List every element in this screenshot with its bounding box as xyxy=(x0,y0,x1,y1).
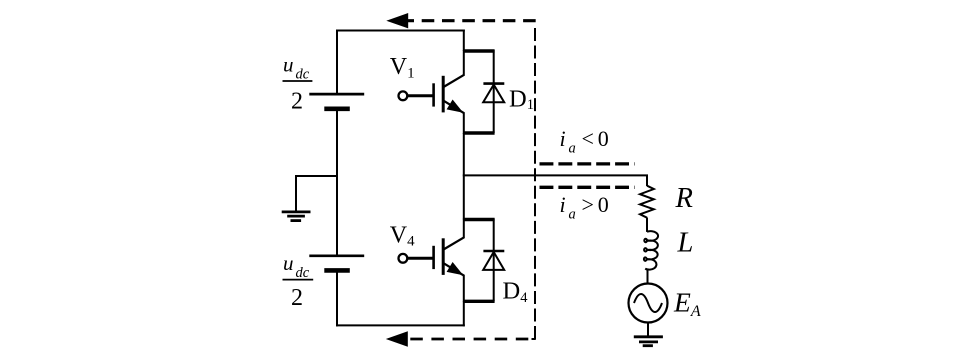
svg-text:0: 0 xyxy=(598,126,609,151)
inductor L xyxy=(644,231,658,269)
label u_dc/2 bottom xyxy=(283,251,314,311)
svg-text:0: 0 xyxy=(598,192,609,217)
dashed current loop top xyxy=(408,19,536,22)
arrow top (points left) xyxy=(386,13,408,28)
svg-text:i: i xyxy=(560,126,566,151)
wire ground branch horizontal xyxy=(296,175,338,177)
bold dashed ia>0 path xyxy=(540,186,635,189)
svg-text:<: < xyxy=(582,126,594,151)
wire R to L xyxy=(646,218,648,232)
diode D4 xyxy=(483,219,504,302)
svg-text:R: R xyxy=(675,183,693,214)
label u_dc/2 top xyxy=(283,53,313,115)
svg-text:EA: EA xyxy=(673,286,701,320)
wire left rail upper xyxy=(336,30,338,95)
wire L to EA xyxy=(647,271,649,285)
wire top bus xyxy=(336,30,465,32)
battery B2 u_dc/2 long plate xyxy=(309,254,364,257)
svg-text:V1: V1 xyxy=(390,54,415,81)
source EA circle xyxy=(629,284,668,323)
svg-text:D4: D4 xyxy=(503,277,529,306)
transistor V4 (IGBT) xyxy=(399,219,465,303)
svg-text:D1: D1 xyxy=(509,85,534,113)
dashed current loop right side xyxy=(534,28,536,339)
ground symbol left xyxy=(282,212,311,221)
wire right rail bottom xyxy=(463,301,465,326)
wire bottom bus xyxy=(336,324,465,326)
node thick bar bottom of V4/D4 xyxy=(463,300,495,303)
svg-text:L: L xyxy=(677,228,694,259)
wire left rail lower xyxy=(336,270,338,326)
svg-text:dc: dc xyxy=(296,265,310,281)
svg-text:2: 2 xyxy=(291,285,303,311)
dashed loop corner hook xyxy=(532,338,536,340)
wire EA to ground xyxy=(647,323,649,337)
wire left rail middle xyxy=(336,109,338,256)
label ia>0 xyxy=(560,192,609,223)
wire right rail middle (output node) xyxy=(463,133,465,220)
svg-text:u: u xyxy=(283,53,294,77)
wire output to load xyxy=(463,175,647,186)
wire ground branch vertical xyxy=(295,175,297,211)
svg-text:2: 2 xyxy=(291,89,303,115)
source EA sine xyxy=(634,294,662,312)
arrow bottom (points left) xyxy=(386,331,408,346)
wire right rail top xyxy=(463,30,465,52)
svg-text:i: i xyxy=(560,192,566,217)
svg-text:u: u xyxy=(283,251,294,275)
bold dashed ia<0 path xyxy=(540,162,635,165)
transistor V1 (IGBT) xyxy=(399,50,465,134)
node thick bar bottom of V1/D1 xyxy=(463,131,495,134)
svg-text:>: > xyxy=(582,192,594,217)
battery B1 u_dc/2 long plate xyxy=(309,93,364,96)
battery B1 short plate xyxy=(324,107,350,112)
dashed current loop bottom xyxy=(410,338,531,341)
ground symbol right xyxy=(634,337,663,346)
diode D1 xyxy=(483,50,504,133)
node thick bar top of V1/D1 xyxy=(463,49,495,52)
resistor R xyxy=(640,186,654,218)
battery B2 short plate xyxy=(324,268,350,273)
svg-text:a: a xyxy=(569,206,576,222)
svg-text:a: a xyxy=(569,141,576,157)
svg-text:V4: V4 xyxy=(390,222,415,249)
node thick bar top of V4/D4 xyxy=(463,218,495,221)
label ia<0 xyxy=(560,126,609,157)
